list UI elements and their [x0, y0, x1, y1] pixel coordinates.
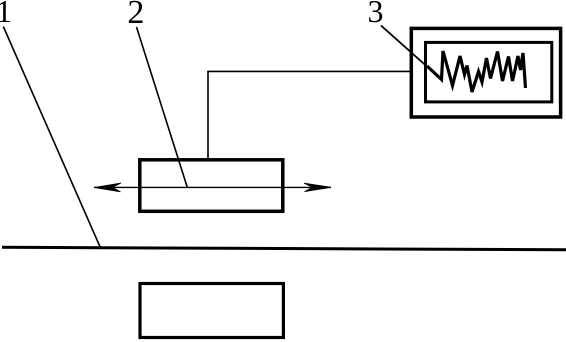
- left arrowhead: [94, 183, 121, 192]
- leader line 1 (to surface): [3, 27, 101, 250]
- oscilloscope outer frame: [411, 28, 560, 117]
- probe (transducer) rectangle: [140, 160, 283, 212]
- svg-text:1: 1: [0, 0, 12, 29]
- scan motion arrow shaft: [94, 186, 331, 188]
- waveform (echo signal): [427, 51, 526, 92]
- leader line 3 (to screen): [381, 26, 441, 80]
- svg-text:2: 2: [127, 0, 144, 31]
- leader line 2 (to probe): [137, 27, 188, 188]
- right arrowhead: [304, 183, 331, 191]
- svg-text:3: 3: [368, 0, 384, 29]
- oscilloscope screen: [426, 42, 552, 102]
- surface line (test object): [2, 247, 566, 250]
- wire from probe to oscilloscope: [208, 71, 411, 159]
- reflector block under surface: [140, 284, 283, 338]
